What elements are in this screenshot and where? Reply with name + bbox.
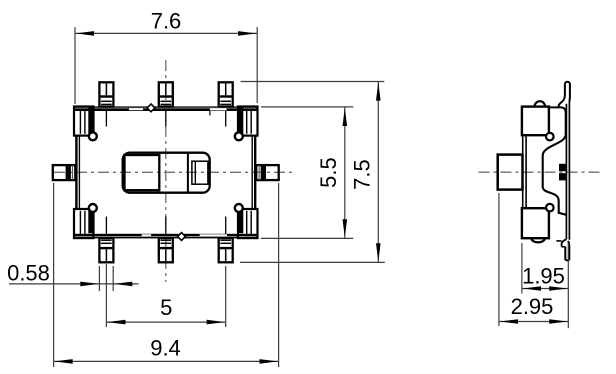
side terminal (right): [256, 165, 279, 180]
terminal pin 1 (top-left): [99, 82, 113, 106]
side view: top bent pin block: [535, 101, 545, 106]
cover step tick below top edge: [209, 111, 211, 116]
right side wall (double line): [254, 136, 256, 210]
corner tab bottom-left: [74, 209, 94, 238]
side view: top mounting tab: [565, 82, 570, 102]
slider knob (square): [125, 155, 160, 190]
terminal pin 3 (top-right): [219, 82, 233, 106]
horizontal centerline (side view): [479, 171, 602, 173]
slider slot (rounded rect): [123, 153, 210, 193]
terminal pin 4 (bottom-right): [219, 238, 233, 262]
side view: actuator knob: [498, 155, 523, 190]
svg-text:1.95: 1.95: [522, 264, 565, 289]
terminal pin 2 (top-middle): [159, 82, 173, 106]
side view: cover front face (double line): [522, 135, 524, 208]
svg-text:7.5: 7.5: [349, 159, 374, 190]
weld mark diamond (top): [147, 104, 155, 112]
svg-text:0.58: 0.58: [7, 260, 50, 285]
dimension 2.95: [498, 193, 500, 326]
side view: contact spring contour: [543, 131, 567, 215]
side view: contact point (black): [559, 164, 566, 171]
terminal pin 6 (bottom-left): [99, 238, 113, 262]
dimension 1.95: [521, 243, 523, 294]
svg-text:2.95: 2.95: [511, 294, 554, 319]
svg-text:5: 5: [160, 295, 172, 320]
svg-text:5.5: 5.5: [316, 157, 341, 188]
slider alternate position (capsule): [187, 154, 189, 192]
side view: base plate right face: [565, 104, 567, 240]
dimension 9.4 (overall width): [53, 183, 55, 367]
corner tab top-right: [238, 107, 258, 136]
pin centerline tick below top edge: [165, 111, 167, 127]
vertical centerline (top view): [165, 60, 167, 282]
dimension 5 (pin pitch): [105, 264, 107, 327]
svg-text:9.4: 9.4: [150, 336, 181, 361]
corner tab bottom-right: [238, 209, 258, 238]
pin centerline tick below top edge: [105, 111, 107, 127]
pin centerline tick below top edge: [225, 111, 227, 127]
dimension 0.58 (pin width): [98, 266, 100, 291]
switch body bottom edge: [74, 234, 258, 239]
side terminal (left): [53, 165, 76, 180]
side view: bottom mounting tab: [561, 239, 566, 247]
corner tab top-left: [74, 107, 94, 136]
switch body top edge: [74, 106, 258, 111]
left side wall (double line): [75, 136, 77, 210]
horizontal centerline (top view): [54, 171, 296, 173]
terminal pin 5 (bottom-middle): [159, 238, 173, 262]
weld mark diamond (bottom): [178, 233, 186, 241]
side view: plate top edge: [550, 107, 566, 131]
dimension 5.5 (body height): [261, 106, 353, 108]
dimension 7.5 (overall height): [241, 81, 385, 83]
dimension 7.6 (body width): [74, 27, 76, 104]
svg-text:7.6: 7.6: [151, 9, 182, 34]
side view: bottom bent pin block: [531, 238, 544, 242]
